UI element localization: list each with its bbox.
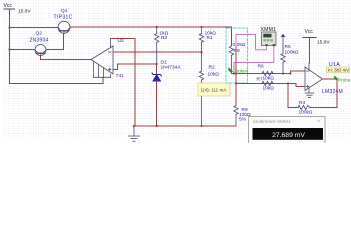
wire U2 non-inverting input to zener reference node (113, 64, 157, 69)
svg-text:×: × (317, 119, 320, 125)
svg-text:15.0V: 15.0V (317, 40, 330, 46)
svg-text:R3: R3 (161, 35, 167, 41)
resistor R6 10k (horizontal, in + input row) (262, 71, 273, 75)
resistor R1 10k (199, 27, 203, 71)
wire output rail Q1 emitter to R8 top (70, 27, 232, 46)
wire U2 inverting input to R1/R2 divider (113, 51, 202, 53)
svg-text:741: 741 (116, 73, 124, 79)
junction at divider (201.5,52) (200, 51, 202, 53)
multimeter window Multimeter-XMM1 (249, 117, 326, 144)
svg-text:R6: R6 (258, 64, 264, 70)
junction jog on row (289, 72, 291, 74)
wire right Vcc stem to U1A V+ (309, 38, 311, 63)
svg-text:27.689 mV: 27.689 mV (272, 132, 305, 139)
wire Q2 collector up to Q1 base (46, 34, 64, 50)
junction R4 riser on row2 (287, 82, 289, 84)
wire U1A output with Probe1 (323, 78, 338, 80)
power symbol Vcc (right) (303, 37, 316, 39)
svg-text:Multimeter-XMM1: Multimeter-XMM1 (253, 119, 291, 125)
junction ground rail left (133, 125, 135, 127)
svg-text:1N4734A: 1N4734A (161, 65, 182, 71)
svg-text:Q1: Q1 (61, 8, 68, 14)
svg-text:R5: R5 (285, 44, 291, 50)
probe Probe1 (green) (334, 76, 351, 83)
selection box (dashed cyan) around R8/probe (226, 28, 248, 83)
svg-text:R4: R4 (299, 100, 305, 106)
probe Probe4 (green) on R8 bottom node (228, 67, 249, 73)
wire left Vcc rail down and along bottom to op-amp supply pins (10, 9, 104, 83)
wire row2 to U1A - input (236, 84, 305, 87)
power arrow for R5 (Vcc up arrow) (281, 34, 286, 37)
resistor R8 0.25ohm current sense (229, 46, 233, 74)
wire D1 to ground rail (156, 81, 158, 126)
junction row1 crossing (235, 72, 237, 74)
junction at R1 top (200, 26, 202, 28)
svg-text:Vcc: Vcc (4, 3, 13, 9)
svg-text:In: 383 mV: In: 383 mV (328, 68, 349, 73)
svg-text:100kΩ: 100kΩ (299, 110, 313, 116)
probe tooltip 111 mA (198, 83, 230, 96)
op-amp U1A LM324M (305, 63, 323, 93)
ground symbol (bottom left) (129, 126, 140, 141)
svg-text:R2: R2 (209, 65, 215, 71)
svg-text:Q2: Q2 (36, 31, 43, 37)
resistor R2 10k (199, 71, 203, 126)
svg-text:100kΩ: 100kΩ (285, 50, 299, 56)
zener diode D1 1N4734A (152, 73, 161, 81)
svg-text:2N3904: 2N3904 (30, 38, 49, 44)
wire node row R8-bottom to U1A + input (232, 71, 306, 74)
svg-text:Vcc: Vcc (305, 29, 314, 35)
junction at R3 top (156, 26, 158, 28)
wire output node vertical to R9 (235, 48, 237, 106)
transistor Q1 TIP31C (58, 21, 70, 33)
op-amp U2 741 (mirrored, output left) (91, 39, 113, 78)
junction at (9.5,27.5) (8, 26, 10, 28)
wire Vcc rail to Q1 collector (10, 27, 59, 29)
junction D1 at ground rail (156, 125, 158, 127)
ground rail (bottom) (134, 125, 236, 127)
junction XMM1- on row (233, 72, 235, 74)
svg-text:5%: 5% (239, 117, 247, 123)
probe tooltip In: 383 mV (327, 67, 350, 73)
resistor R9 100 ohm load (234, 106, 238, 127)
svg-text:1(4): 111 mA: 1(4): 111 mA (201, 88, 228, 93)
svg-text:TIP31C: TIP31C (54, 15, 73, 21)
sheet grid background (2, 0, 351, 137)
junction row2 crossing (235, 82, 237, 84)
svg-text:10kΩ: 10kΩ (263, 76, 275, 82)
svg-text:10kΩ: 10kΩ (208, 72, 220, 78)
svg-text:LM324M: LM324M (322, 89, 343, 95)
junction R5 bottom on row (282, 72, 284, 74)
junction R2 at ground rail (200, 125, 202, 127)
resistor R4 100k (horizontal feedback) (298, 105, 310, 109)
resistor R7 10k (horizontal, in - input row) (262, 81, 273, 85)
wire Vcc rail to Q2 left lead (10, 49, 36, 51)
power symbol Vcc (left) (4, 8, 15, 10)
wire Q2 emitter to op-amp U2 output (41, 56, 92, 60)
svg-text:R1: R1 (207, 35, 213, 41)
svg-text:R8: R8 (234, 48, 240, 54)
svg-text:0.25Ω: 0.25Ω (233, 42, 246, 48)
multimeter XMM1 icon (262, 32, 277, 46)
ground symbol under U1A (305, 93, 314, 97)
junction at zener node (156.7,64) (156, 63, 158, 65)
wire XMM1 + terminal (magenta) to output node (236, 35, 267, 50)
wire feedback from output down through R4 to row2 (310, 79, 337, 108)
svg-text:XMM1: XMM1 (261, 27, 277, 33)
svg-text:15.0V: 15.0V (18, 9, 31, 15)
transistor Q2 2N3904 (35, 45, 46, 56)
svg-text:10kΩ: 10kΩ (263, 86, 275, 92)
junction at (9.5,49.5) (8, 48, 10, 50)
resistor R5 100k (281, 37, 285, 74)
wire XMM1 - terminal (magenta) to R8 bottom node (234, 46, 274, 74)
svg-text:R7: R7 (257, 77, 263, 83)
wire U2 top pin to ground drop (111, 39, 136, 127)
svg-text:Probe1: Probe1 (338, 78, 351, 83)
resistor R3 1k (155, 27, 159, 64)
wire R3 to zener D1 top (156, 64, 158, 75)
